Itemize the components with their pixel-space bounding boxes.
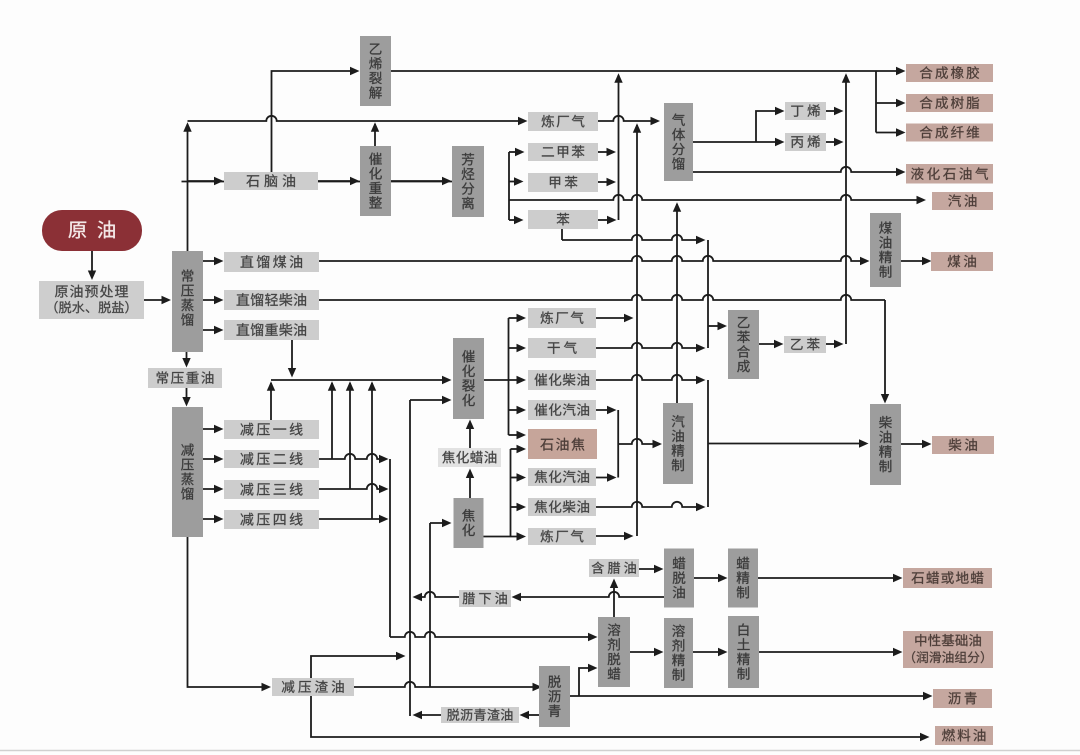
- node: fuel oil (燃料油): [935, 726, 993, 745]
- node: hanlayou (含腊油): [589, 559, 639, 577]
- wire: wax stripping to laxiayou (leftwards): [515, 592, 664, 597]
- node: xylene (二甲苯): [528, 143, 598, 161]
- wire: naphtha riser to ethylene cracking: [272, 71, 357, 172]
- wire: riser x=430 to coker: [429, 523, 431, 687]
- wire: lianchangqi to gas fractionation: [598, 116, 656, 121]
- wire: deasphalting to deasphalted residue (leftwards): [523, 714, 539, 716]
- wire: gasoline line y=200 from bracket to qiyou box: [509, 195, 922, 200]
- wire: ethylene cracking output main line y=71 to synthesis bracket: [391, 70, 876, 72]
- wire: to gasoline refining: [618, 439, 658, 444]
- wire: benzene out to riser corner: [598, 219, 613, 221]
- wire: wax oil riser to hanlayou: [613, 582, 615, 617]
- node: dry gas (干气): [528, 338, 596, 358]
- wire: gas fractionation to LPG: [693, 167, 902, 172]
- wire: wax stripping to wax refining: [694, 577, 724, 579]
- wire: synthesis bracket x=876: [875, 71, 877, 133]
- wire: gas fractionation to butene/propene: [693, 141, 781, 143]
- wire: line3 to collector x=390: [319, 484, 385, 489]
- wire: hanlayou to wax stripping: [639, 568, 660, 570]
- node: straight-run heavy diesel (直馏重柴油): [224, 320, 319, 340]
- node: butene (丁烯): [785, 102, 826, 120]
- wire: straight-run heavy diesel feed arrow: [203, 329, 220, 331]
- wire: straight-run kerosene feed arrow: [203, 260, 220, 262]
- wire: riser x=410 to FCC: [409, 400, 411, 716]
- wire: kerosene line to kerosene refining: [319, 256, 865, 261]
- node: atmospheric distillation (常压蒸馏): [172, 251, 203, 352]
- node: coker gasoline (焦化汽油): [528, 468, 596, 486]
- node: diesel (柴油): [932, 436, 994, 454]
- node: benzene (苯): [528, 210, 598, 229]
- node: refinery gas top (炼厂气): [528, 112, 598, 131]
- node: deasphalting (脱沥青): [539, 666, 570, 727]
- wire: xylene out: [598, 151, 612, 153]
- node: solvent dewaxing (溶剂脱蜡): [598, 617, 630, 687]
- wire: deasphalting to bitumen with branch to solvent dewaxing: [570, 695, 928, 697]
- node: wax refining (蜡精制): [728, 549, 758, 608]
- wire: vacuum residue to deasphalting: [354, 682, 538, 687]
- wire: vacuum distillation bottom to vacuum residue: [188, 537, 268, 687]
- wire: dry gas to benzene riser x=708: [596, 343, 702, 348]
- node: deasphalted residue (脱沥青渣油): [441, 707, 519, 723]
- wire: to vacuum distillation: [186, 388, 188, 403]
- node: coker wax oil (焦化蜡油): [438, 448, 501, 467]
- node: catalytic gasoline (催化汽油): [528, 400, 596, 420]
- node: propene (丙烯): [785, 133, 826, 151]
- wire: deasphalted residue to riser x=410 (leftwards): [416, 714, 441, 716]
- node: catalytic reforming (催化重整): [360, 146, 391, 216]
- node: diesel refining (柴油精制): [870, 404, 901, 485]
- node: straight-run kerosene (直馏煤油): [224, 252, 319, 272]
- wire: vacuum line1 riser: [270, 383, 272, 420]
- node: ethylbenzene (乙苯): [784, 336, 826, 353]
- node: toluene (甲苯): [528, 173, 598, 192]
- wire: refinery-gas header y=121 to lianchangqi: [188, 116, 525, 121]
- node: naphtha (石脑油): [224, 172, 318, 190]
- wire: butene to riser x=846: [826, 110, 840, 112]
- wire: ethylbenzene to riser x=846: [826, 343, 840, 345]
- wire: coker diesel to merge riser x=708: [596, 502, 702, 507]
- node: bitumen (沥青): [933, 689, 992, 708]
- wire: vacuum line3 riser: [349, 383, 351, 489]
- wire: solvent refining to clay refining: [693, 651, 724, 653]
- wire: aromatics riser x=618.5 up to main line: [618, 75, 620, 220]
- node: vacuum line 4 (减压四线): [224, 510, 319, 529]
- wire: wax refining to paraffin wax: [758, 577, 898, 579]
- wire: ethylbenzene synthesis to yiben: [759, 343, 780, 345]
- node: vacuum distillation (减压蒸馏): [172, 407, 203, 537]
- wire: bottom lianchangqi-c into riser: [596, 535, 630, 537]
- node: gasoline (汽油): [932, 192, 993, 210]
- wire: x=390 down to solvent dewaxing: [389, 459, 391, 637]
- page bottom divider: [0, 750, 1080, 752]
- wire: crude oil to pretreatment: [91, 251, 93, 277]
- wire: kerosene refining to meiyou: [901, 260, 927, 262]
- node: FCC catalytic cracking (催化裂化): [453, 338, 484, 419]
- wire: coker to coker wax oil: [469, 471, 471, 499]
- wire: FCC product spine A: [508, 318, 510, 435]
- wire: vacuum residue top branch to riser x=410: [311, 656, 402, 678]
- wire: vacuum line2 riser: [331, 383, 333, 459]
- wire: catalytic diesel to merge riser x=708: [596, 375, 702, 380]
- wire: diesel merge riser x=708: [707, 380, 709, 507]
- node: gasoline refining (汽油精制): [663, 403, 693, 484]
- wire: gas riser x=637: [636, 125, 638, 536]
- node: neutral base oil (中性基础油): [903, 631, 993, 668]
- wire: coker product spine B: [510, 449, 512, 537]
- wire: gasoline refining riser x=677: [676, 204, 678, 403]
- node: vacuum line 2 (减压二线): [224, 450, 319, 468]
- node: petroleum coke (石油焦): [528, 429, 597, 459]
- wire: reformer top riser to gas header: [374, 124, 376, 146]
- node: synthetic fiber (合成纤维): [906, 124, 993, 142]
- wire: toluene out: [598, 181, 612, 183]
- wire: coker gasoline to merge riser x=618: [596, 477, 613, 479]
- wire: to diesel refining: [708, 443, 864, 445]
- wire: catalytic gasoline to merge riser x=618: [596, 409, 613, 411]
- node: crude pretreatment (原油预处理): [39, 281, 144, 319]
- node: catalytic diesel (催化柴油): [528, 370, 596, 390]
- wire: diesel refining to chaiyou: [901, 443, 927, 445]
- node: straight-run light diesel (直馏轻柴油): [224, 290, 319, 310]
- wire: propene to riser x=846: [826, 141, 840, 143]
- wire: reformer to aromatics separation: [391, 180, 448, 182]
- wire: coker wax oil to FCC: [469, 422, 471, 449]
- wire: vacuum line4 riser: [371, 383, 373, 519]
- wire: line2 to collector x=390: [319, 454, 385, 459]
- wire: straight-run light diesel feed arrow: [203, 299, 220, 301]
- wire: to synthetic resin: [876, 102, 902, 104]
- node: synthetic rubber (合成橡胶): [906, 64, 993, 82]
- wire: aromatics separation outputs bracket x=509: [508, 152, 510, 220]
- wire: vacuum residue bottom branch to fuel oil: [311, 696, 925, 737]
- wire: FCC feed collector y=380: [271, 379, 448, 381]
- node: refinery gas b (炼厂气): [528, 308, 596, 328]
- wire: solvent dewaxing to solvent refining: [630, 651, 660, 653]
- wire: to synthetic rubber: [876, 70, 902, 72]
- node: aromatics separation (芳烃分离): [452, 146, 484, 217]
- wire: benzene branch down to ethylbenzene synthesis: [561, 229, 563, 240]
- node: solvent refining (溶剂精制): [664, 618, 693, 688]
- wire: riser x=846 to main synthesis line: [845, 75, 847, 344]
- node: ethylene cracking (乙烯裂解): [360, 36, 391, 106]
- node: vacuum line 1 (减压一线): [224, 420, 319, 439]
- wire: vacuum distillation outputs: [203, 428, 220, 430]
- node: crude oil (原油): [42, 210, 142, 251]
- wire: to synthetic fiber: [876, 132, 902, 134]
- wire: gasoline merge riser: [617, 410, 619, 478]
- node: synthetic resin (合成树脂): [906, 94, 993, 112]
- node: clay refining (白土精制): [728, 616, 759, 688]
- wire: naphtha to catalytic reformer: [318, 180, 356, 182]
- node: vacuum residue (减压渣油): [272, 678, 354, 696]
- node: LPG (液化石油气): [906, 164, 993, 184]
- wire: laxiayou to riser x=410 (leftwards): [416, 592, 459, 597]
- node: kerosene refining (煤油精制): [870, 213, 901, 287]
- wire: atmospheric distillation top riser (x=187.5): [187, 124, 189, 251]
- node: laxiayou (腊下油): [459, 590, 511, 607]
- node: refinery gas c (炼厂气): [528, 528, 596, 545]
- node: wax stripping (蜡脱油): [664, 549, 694, 608]
- node: kerosene (煤油): [931, 252, 993, 271]
- node: paraffin or earth wax (石蜡或地蜡): [903, 568, 992, 588]
- wire: branch to naphtha: [188, 180, 221, 182]
- node: coker diesel (焦化柴油): [528, 498, 596, 516]
- wire: atmospheric residue drop: [186, 352, 188, 364]
- wire: line4 to collector x=390: [319, 518, 385, 520]
- node: vacuum line 3 (减压三线): [224, 480, 319, 499]
- wire: clay refining to neutral base oil: [759, 651, 898, 653]
- wire: heavy diesel drop to collector: [291, 340, 293, 374]
- node: coker (焦化): [454, 498, 484, 548]
- wire: pretreatment to atmospheric distillation: [144, 299, 168, 301]
- wire: top lianchangqi-b into riser: [596, 317, 630, 319]
- node: ethylbenzene synthesis (乙苯合成): [728, 310, 759, 379]
- wire: light diesel line to diesel refining top: [319, 295, 885, 300]
- node: atmospheric residue (常压重油): [148, 368, 222, 388]
- node: gas fractionation (气体分馏): [664, 103, 693, 181]
